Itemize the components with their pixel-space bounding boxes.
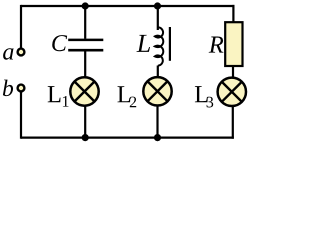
wire bottom rail (21, 137, 234, 139)
wire from terminal b down to bottom rail (20, 92, 22, 139)
wire lamp L1 to bottom rail (84, 105, 86, 138)
inductor L label (136, 35, 150, 52)
wire left drop from top rail to terminal a (20, 5, 22, 49)
node b label (3, 80, 13, 97)
lamp L1 label (48, 86, 61, 102)
lamp L3 label (195, 86, 208, 102)
lamp L3 (218, 78, 246, 106)
capacitor C label (52, 35, 67, 51)
lamp L1 (70, 77, 98, 105)
wire capacitor to lamp L1 (84, 50, 86, 78)
node a label (3, 48, 13, 60)
junction dot branch2 bottom (154, 134, 161, 141)
wire branch3 right drop (rail to resistor) (232, 5, 234, 23)
junction dot branch1 top (82, 2, 89, 9)
lamp L2 (143, 77, 171, 105)
inductor core bar (169, 27, 171, 61)
wire lamp L3 to bottom rail (232, 105, 234, 139)
lamp L2 label (118, 86, 131, 102)
wire branch2 top (rail to inductor) (157, 6, 159, 30)
resistor R (225, 22, 242, 66)
wire inductor to lamp L2 (157, 66, 159, 79)
wire branch1 top (rail to capacitor) (84, 6, 86, 39)
junction dot branch1 bottom (82, 134, 89, 141)
junction dot branch2 top (154, 2, 161, 9)
terminal b (18, 85, 25, 92)
capacitor C plates (68, 39, 103, 42)
inductor L coil (155, 27, 163, 65)
terminal a (18, 49, 25, 56)
wire top rail (21, 5, 234, 7)
resistor R label (209, 37, 224, 53)
wire lamp L2 to bottom rail (156, 105, 158, 138)
wire resistor to lamp L3 (232, 66, 234, 79)
